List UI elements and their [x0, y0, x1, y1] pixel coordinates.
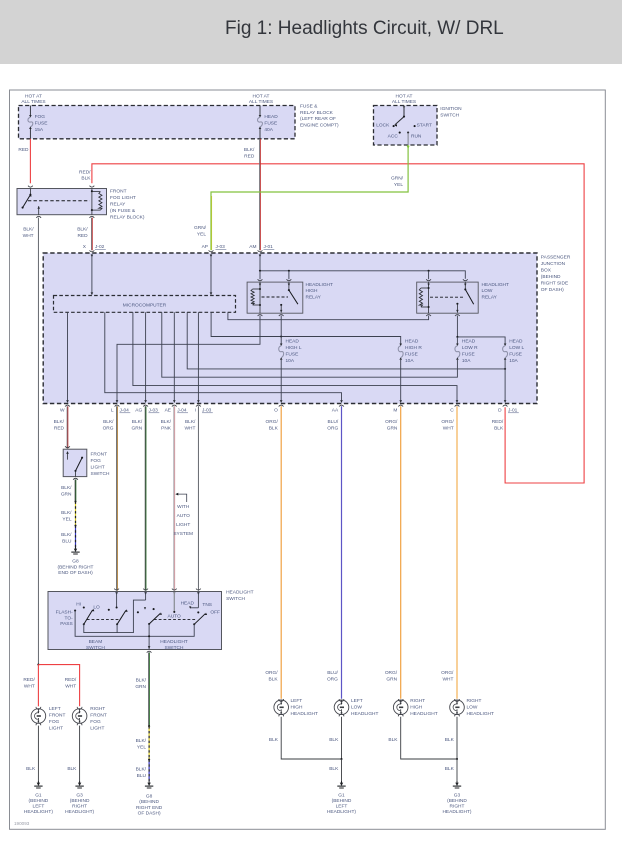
svg-text:HEAD: HEAD: [264, 114, 278, 120]
bulb right front fog light: [72, 709, 87, 724]
high relay switch connector: [287, 279, 292, 280]
headlight switch box: [48, 592, 222, 650]
wire L entry arrow: [114, 589, 119, 590]
wire AP into microcomputer: [210, 255, 213, 258]
wire head high R fuse to M: [400, 360, 402, 401]
wire high relay output to head high L fuse and O: [280, 316, 282, 344]
svg-text:LIGHT: LIGHT: [91, 464, 105, 470]
svg-text:BLK: BLK: [269, 426, 279, 432]
svg-text:10A: 10A: [286, 358, 295, 364]
svg-text:LEFT: LEFT: [49, 706, 61, 712]
svg-text:BLK/: BLK/: [77, 226, 88, 232]
node right headlight ground splice: [456, 758, 458, 760]
svg-text:RED: RED: [18, 147, 29, 153]
svg-text:HEADLIGHT: HEADLIGHT: [160, 639, 188, 645]
svg-text:YEL: YEL: [394, 182, 403, 188]
svg-text:FUSE &: FUSE &: [300, 104, 318, 110]
svg-text:MICROCOMPUTER: MICROCOMPUTER: [123, 302, 167, 308]
svg-text:FRONT: FRONT: [110, 188, 127, 194]
svg-text:END OF DASH): END OF DASH): [58, 570, 93, 576]
svg-text:HEADLIGHT): HEADLIGHT): [442, 809, 471, 815]
node left headlight ground splice: [340, 758, 342, 760]
wire RED/WHT to left front fog light: [37, 665, 39, 707]
wire ORG/GRN M to right high headlight: [400, 406, 402, 699]
svg-text:FUSE: FUSE: [462, 351, 475, 357]
svg-text:GRN: GRN: [135, 684, 146, 690]
svg-text:(BEHIND: (BEHIND: [139, 799, 159, 805]
svg-text:LEFT: LEFT: [33, 804, 45, 810]
svg-text:(LEFT REAR OF: (LEFT REAR OF: [300, 116, 336, 122]
wire BLK/PNK AE to headlight switch: [173, 406, 175, 590]
svg-text:LEFT: LEFT: [336, 804, 348, 810]
connector W: [65, 405, 70, 406]
node fog feed splice: [37, 664, 39, 666]
svg-text:G8: G8: [72, 559, 79, 565]
wire BLK right fog to ground: [79, 726, 81, 781]
svg-text:GRN: GRN: [61, 492, 72, 498]
svg-text:40A: 40A: [264, 127, 273, 133]
headlight switch ground wiring: [75, 611, 194, 637]
svg-text:RIGHT END: RIGHT END: [136, 805, 163, 811]
svg-text:WITH: WITH: [177, 504, 190, 510]
high relay coil connector: [258, 279, 263, 280]
svg-text:GRN: GRN: [387, 426, 398, 432]
svg-text:RIGHT: RIGHT: [72, 804, 87, 810]
wire microcomputer pin to low relay coil: [228, 312, 429, 319]
svg-text:RELAY BLOCK): RELAY BLOCK): [110, 214, 145, 220]
svg-text:10A: 10A: [462, 358, 471, 364]
headlight high relay box: [247, 282, 303, 313]
svg-text:BLK/: BLK/: [161, 419, 172, 425]
connector AG J-03: [143, 405, 148, 406]
wire microcomputer pin AE: [173, 312, 175, 400]
svg-text:HEAD: HEAD: [405, 338, 419, 344]
left low headlight connector bottom: [339, 714, 344, 716]
svg-text:M: M: [393, 408, 397, 414]
svg-text:IGNITION: IGNITION: [440, 106, 462, 112]
node splice BLK/YEL-BLK/BLU: [74, 524, 76, 526]
svg-text:AP: AP: [202, 244, 208, 250]
svg-text:FOG: FOG: [35, 114, 46, 120]
svg-text:YEL: YEL: [62, 516, 71, 522]
svg-text:JUNCTION: JUNCTION: [541, 261, 566, 267]
svg-text:BLK: BLK: [494, 426, 504, 432]
svg-text:ORG/: ORG/: [441, 419, 454, 425]
svg-text:SWITCH: SWITCH: [86, 645, 105, 651]
annotation WITH AUTO LIGHT SYSTEM: [175, 493, 178, 496]
svg-text:BLK: BLK: [67, 766, 77, 772]
svg-text:PASS: PASS: [60, 621, 72, 627]
front fog relay dashed link: [28, 200, 90, 202]
wire BLU/ORG AA to left low headlight: [341, 406, 343, 699]
headlight switch rotor contacts: [137, 611, 139, 613]
wire microcomputer pin to high beam rail: [211, 312, 401, 343]
svg-text:GRN: GRN: [386, 677, 397, 683]
beam switch lever 2: [116, 623, 118, 625]
bulb right high headlight: [393, 700, 408, 715]
right high headlight connector top: [398, 699, 403, 701]
svg-text:SWITCH: SWITCH: [440, 112, 459, 118]
connector L J-04: [115, 405, 120, 406]
microcomputer box: [54, 296, 236, 313]
svg-text:RIGHT SIDE: RIGHT SIDE: [541, 281, 568, 287]
front fog light relay box: [17, 189, 107, 215]
wire BLK/WHT front fog relay to fog lights junction: [37, 218, 39, 665]
svg-text:G1: G1: [35, 792, 42, 798]
svg-text:(BEHIND: (BEHIND: [29, 798, 49, 804]
svg-text:RED/: RED/: [23, 677, 35, 683]
svg-text:HOT AT: HOT AT: [253, 94, 270, 100]
svg-text:BEAM: BEAM: [89, 639, 103, 645]
svg-text:HEAD: HEAD: [286, 338, 300, 344]
svg-text:HEADLIGHT: HEADLIGHT: [482, 282, 510, 288]
wire RED fog fuse to front fog relay: [29, 139, 31, 184]
svg-text:ENGINE COMPT): ENGINE COMPT): [300, 122, 339, 128]
low relay switch connector: [463, 279, 468, 280]
wire rail stubs to relay connectors: [259, 271, 261, 279]
wire BLK left fog to ground: [37, 726, 39, 781]
svg-text:HEADLIGHT: HEADLIGHT: [467, 711, 495, 717]
svg-text:HIGH: HIGH: [410, 704, 423, 710]
headlight switch lever 1: [148, 623, 150, 625]
svg-text:FRONT: FRONT: [49, 713, 66, 719]
svg-text:WHT: WHT: [24, 684, 35, 690]
svg-text:START: START: [417, 122, 432, 128]
fuse HEAD HIGH R 10A: [399, 344, 402, 347]
svg-text:C: C: [450, 408, 454, 414]
fuse HEAD FUSE 40A: [259, 115, 262, 118]
wire BLK to ground G1: [341, 759, 343, 781]
fuse HEAD FUSE 40A lead: [259, 106, 261, 117]
svg-text:GRN/: GRN/: [194, 225, 207, 231]
wire low L fuse to D: [504, 360, 506, 401]
svg-text:HIGH R: HIGH R: [405, 345, 422, 351]
left high headlight connector bottom: [279, 714, 284, 716]
svg-text:TNS: TNS: [202, 602, 212, 608]
svg-text:AUTO: AUTO: [168, 614, 182, 620]
svg-text:RED: RED: [244, 154, 255, 160]
svg-text:HEADLIGHT): HEADLIGHT): [65, 809, 94, 815]
wire microcomputer pin to low L fuse output sense: [187, 312, 505, 369]
svg-text:FOG: FOG: [91, 458, 102, 464]
low relay coil connector: [426, 279, 431, 280]
svg-text:GRN/: GRN/: [391, 176, 404, 182]
high relay switch output pin: [280, 304, 282, 306]
high relay coil: [259, 282, 261, 313]
svg-text:RELAY BLOCK: RELAY BLOCK: [300, 110, 334, 116]
svg-text:G8: G8: [146, 794, 153, 800]
svg-text:BLU/: BLU/: [327, 670, 338, 676]
svg-text:ALL TIMES: ALL TIMES: [392, 99, 416, 105]
svg-text:AG: AG: [135, 408, 142, 414]
wire RUN to box bottom: [407, 133, 409, 145]
connector M: [398, 405, 403, 406]
svg-text:OF DASH): OF DASH): [541, 287, 564, 293]
ground G8 (fog switch): [75, 547, 77, 550]
wire BLK left low headlight ground: [341, 717, 343, 759]
wire RED/BLK front fog relay to passenger junction box D loop: [92, 164, 584, 483]
svg-text:FOG LIGHT: FOG LIGHT: [110, 195, 136, 201]
connector AE J-04: [172, 405, 177, 406]
front fog relay connector (switch feed): [28, 186, 33, 187]
svg-text:HOT AT: HOT AT: [25, 94, 42, 100]
ground G3 (right headlights): [456, 781, 458, 784]
wire BLK left high headlight ground: [281, 717, 341, 759]
svg-text:HEADLIGHT): HEADLIGHT): [24, 809, 53, 815]
ground G1 (left fog): [37, 781, 39, 784]
wire low relay output rail: [456, 316, 458, 337]
svg-text:BLU/: BLU/: [328, 419, 339, 425]
svg-text:SWITCH: SWITCH: [165, 645, 184, 651]
wire BLK/GRN AG to headlight switch: [144, 406, 146, 590]
wire BLK/RED front fog relay to X: [91, 218, 93, 251]
wire microcomputer pin to AA (left low feed): [105, 312, 342, 400]
right low headlight connector top: [455, 699, 460, 701]
svg-text:LO: LO: [93, 605, 100, 611]
wire BLK/RED W to front fog light switch: [66, 406, 68, 448]
svg-text:10A: 10A: [509, 358, 518, 364]
svg-text:HEAD: HEAD: [181, 601, 195, 607]
ignition switch contact ACC: [399, 132, 401, 134]
svg-text:BLK: BLK: [445, 766, 455, 772]
headlight switch output connector: [147, 651, 152, 652]
svg-text:RED: RED: [54, 426, 65, 432]
svg-text:RELAY: RELAY: [110, 201, 126, 207]
bulb left front fog light: [31, 709, 46, 724]
svg-text:G1: G1: [338, 792, 345, 798]
svg-text:HIGH L: HIGH L: [286, 345, 302, 351]
svg-text:FLASH-: FLASH-: [56, 610, 73, 616]
svg-text:O: O: [274, 408, 278, 414]
svg-text:BLK/: BLK/: [132, 419, 143, 425]
svg-text:WHT: WHT: [23, 233, 34, 239]
bulb right low headlight: [450, 700, 465, 715]
svg-text:BLK: BLK: [269, 677, 279, 683]
svg-text:RIGHT: RIGHT: [90, 706, 105, 712]
svg-text:AM: AM: [249, 244, 256, 250]
svg-text:SWITCH: SWITCH: [91, 471, 110, 477]
svg-text:G3: G3: [454, 792, 461, 798]
svg-text:FUSE: FUSE: [286, 351, 299, 357]
svg-text:BLK/: BLK/: [23, 226, 34, 232]
fuse & relay block box: [19, 106, 296, 139]
wire microcomputer pin to low R fuse output: [162, 312, 458, 377]
svg-text:BLK/: BLK/: [54, 419, 65, 425]
front fog switch output: [75, 471, 77, 477]
svg-text:ORG: ORG: [327, 677, 338, 683]
svg-text:BLU: BLU: [62, 538, 72, 544]
title bar: [0, 0, 622, 64]
ignition switch lever: [403, 106, 406, 109]
svg-text:BLK/: BLK/: [136, 678, 147, 684]
wire BLK/ORG L to headlight switch: [116, 406, 118, 590]
svg-text:HEADLIGHT: HEADLIGHT: [410, 711, 438, 717]
front fog light switch box: [63, 449, 87, 476]
svg-text:(IN FUSE &: (IN FUSE &: [110, 208, 136, 214]
wire BLK/YEL dashed: [75, 502, 77, 526]
svg-text:BLK: BLK: [81, 176, 91, 182]
svg-text:BLK/: BLK/: [244, 147, 255, 153]
svg-text:BLK/: BLK/: [61, 532, 72, 538]
low relay switch output pin: [456, 303, 458, 305]
wire BLK/GRN headlight switch to splice: [148, 652, 150, 726]
svg-text:BLK: BLK: [388, 737, 398, 743]
svg-text:LIGHT: LIGHT: [176, 522, 190, 528]
svg-text:HEADLIGHT: HEADLIGHT: [291, 711, 319, 717]
svg-text:RIGHT: RIGHT: [410, 698, 425, 704]
svg-text:ORG/: ORG/: [441, 670, 454, 676]
ignition switch contact START: [414, 125, 416, 127]
ground G3 (right fog): [79, 781, 81, 784]
svg-text:D: D: [498, 408, 502, 414]
svg-text:ORG/: ORG/: [266, 419, 279, 425]
beam switch contact FLASH-TO-PASS: [74, 610, 76, 612]
left high headlight connector top: [279, 699, 284, 701]
headlight switch contact TNS: [197, 611, 199, 613]
high relay bottom connectors: [258, 315, 263, 316]
ground G1 (left headlights): [341, 781, 343, 784]
svg-text:ORG/: ORG/: [265, 670, 278, 676]
wire BLK/BLU dashed (switch): [148, 760, 150, 781]
svg-text:BLK: BLK: [26, 766, 36, 772]
svg-text:RIGHT: RIGHT: [467, 698, 482, 704]
wire I entry arrow: [196, 589, 201, 590]
headlight switch dashed linkage: [154, 618, 197, 620]
svg-text:10A: 10A: [405, 358, 414, 364]
svg-text:RIGHT: RIGHT: [450, 804, 465, 810]
svg-text:BLK/: BLK/: [61, 510, 72, 516]
svg-text:HIGH: HIGH: [306, 288, 319, 294]
svg-text:ALL TIMES: ALL TIMES: [249, 99, 273, 105]
wire BLK/WHT I to headlight switch: [197, 406, 199, 590]
wire BLK/YEL dashed (switch): [148, 726, 150, 759]
connector AA: [339, 405, 344, 406]
front fog relay switch output: [37, 206, 40, 209]
svg-text:BLK: BLK: [329, 766, 339, 772]
svg-text:HEADLIGHT): HEADLIGHT): [327, 809, 356, 815]
wire RED/WHT to right front fog light: [38, 665, 79, 707]
svg-text:HEADLIGHT: HEADLIGHT: [226, 590, 254, 596]
svg-text:ORG: ORG: [103, 426, 114, 432]
svg-text:OFF: OFF: [210, 610, 220, 616]
beam switch contact L wire end: [116, 606, 118, 608]
svg-text:(BEHIND: (BEHIND: [541, 274, 561, 280]
node splice BLK/GRN-BLK/YEL (switch): [148, 725, 150, 727]
svg-text:LOCK: LOCK: [376, 122, 390, 128]
svg-text:WHT: WHT: [443, 426, 454, 432]
fuse HEAD LOW L 10A: [504, 344, 507, 347]
svg-text:SYSTEM: SYSTEM: [173, 531, 193, 537]
ignition switch contact LOCK: [393, 125, 395, 127]
wire ORG/BLK O to left high headlight: [280, 406, 282, 699]
bulb left high headlight: [274, 700, 289, 715]
svg-text:BLK/: BLK/: [136, 767, 147, 773]
svg-text:SWITCH: SWITCH: [226, 596, 245, 602]
svg-text:190093: 190093: [14, 821, 30, 826]
svg-text:OF DASH): OF DASH): [138, 810, 161, 816]
ignition switch contact RUN: [407, 132, 409, 134]
svg-text:WHT: WHT: [184, 426, 195, 432]
svg-text:FUSE: FUSE: [35, 120, 48, 126]
svg-text:AA: AA: [332, 408, 339, 414]
svg-text:FRONT: FRONT: [90, 713, 107, 719]
beam switch pivot wiring: [84, 600, 146, 633]
svg-text:(BEHIND: (BEHIND: [70, 798, 90, 804]
svg-text:LOW: LOW: [467, 704, 478, 710]
right high headlight connector bottom: [398, 714, 403, 716]
svg-text:15A: 15A: [35, 127, 44, 133]
svg-text:LEFT: LEFT: [291, 698, 303, 704]
svg-text:TO-: TO-: [65, 615, 74, 621]
connector AM J-01: [258, 250, 263, 251]
right low headlight connector bottom: [455, 714, 460, 716]
beam switch dashed linkage: [87, 619, 121, 621]
wire AG entry arrow: [143, 589, 148, 590]
connector O: [279, 405, 284, 406]
wire low relay output to low R fuse: [456, 337, 458, 344]
svg-text:RED/: RED/: [492, 419, 504, 425]
svg-text:L: L: [111, 408, 114, 414]
svg-text:(BEHIND: (BEHIND: [332, 798, 352, 804]
ignition switch box: [374, 106, 438, 146]
svg-text:HIGH: HIGH: [291, 704, 304, 710]
svg-text:BLK/: BLK/: [103, 419, 114, 425]
svg-text:HEADLIGHT: HEADLIGHT: [306, 282, 334, 288]
svg-text:GRN: GRN: [132, 426, 143, 432]
low relay bottom connectors: [426, 315, 431, 316]
low relay coil: [428, 282, 430, 313]
headlight low relay box: [417, 282, 479, 313]
low relay dashed link: [430, 296, 464, 298]
connector C: [455, 405, 460, 406]
svg-text:BLK/: BLK/: [136, 738, 147, 744]
svg-text:BLK: BLK: [269, 737, 279, 743]
svg-text:FOG: FOG: [49, 719, 60, 725]
svg-text:LOW R: LOW R: [462, 345, 478, 351]
fuse FOG FUSE 15A lead: [29, 106, 31, 117]
wire BLK right low headlight ground: [456, 717, 458, 759]
svg-text:W: W: [60, 408, 65, 414]
left low headlight connector top: [339, 699, 344, 701]
svg-text:ALL TIMES: ALL TIMES: [21, 99, 45, 105]
wire BLK right high headlight ground: [401, 717, 457, 759]
wire AM feed to relays: [259, 255, 262, 258]
wire high relay coil to L: [117, 316, 260, 401]
node splice BLK/GRN-BLK/YEL: [74, 500, 76, 502]
svg-text:HEAD: HEAD: [462, 338, 476, 344]
svg-text:BLK/: BLK/: [61, 485, 72, 491]
passenger junction box: [43, 253, 537, 404]
fuse HEAD HIGH L 10A: [280, 344, 283, 347]
wire BLK/GRN fog switch to splice: [74, 480, 76, 501]
beam switch lever 1: [83, 623, 85, 625]
svg-text:YEL: YEL: [197, 232, 206, 238]
svg-text:LOW: LOW: [351, 704, 362, 710]
node splice BLK/YEL-BLK/BLU (switch): [148, 759, 150, 761]
wire microcomputer pin to C (right low feed): [133, 312, 457, 400]
svg-text:RED/: RED/: [65, 677, 77, 683]
connector X J-02: [90, 250, 95, 251]
low relay switch blade: [464, 288, 466, 290]
right front fog light connector top: [77, 707, 82, 709]
svg-text:LIGHT: LIGHT: [49, 726, 63, 732]
svg-text:HEADLIGHT: HEADLIGHT: [351, 711, 379, 717]
front fog relay coil: [90, 186, 95, 187]
svg-text:BLK: BLK: [329, 737, 339, 743]
front fog switch blade: [81, 457, 83, 459]
svg-text:RUN: RUN: [411, 134, 422, 140]
wire microcomputer pin W: [67, 312, 69, 400]
